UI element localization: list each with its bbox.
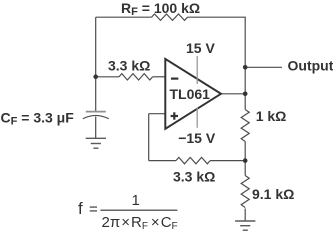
- wire: non-inverting input: [149, 113, 166, 115]
- wire: rail above 1k: [244, 94, 246, 110]
- wire: op-amp output: [221, 93, 245, 95]
- svg-text:2π×RF×CF: 2π×RF×CF: [102, 214, 178, 232]
- wire: left rail top to RF: [96, 16, 152, 18]
- supply +15V line: [196, 56, 198, 84]
- resistor 9.1k vertical zigzag: [241, 176, 249, 208]
- svg-text:15 V: 15 V: [186, 40, 215, 56]
- wire: left rail down to inverting node: [95, 17, 97, 77]
- svg-text:RF = 100 kΩ: RF = 100 kΩ: [121, 0, 200, 18]
- node: feedback junction: [243, 158, 248, 163]
- wire: inverting node to 3.3k: [96, 76, 119, 78]
- capacitor CF top plate: [86, 111, 106, 113]
- svg-text:−15 V: −15 V: [178, 130, 216, 146]
- ground (right): [235, 221, 255, 230]
- wire: 1k to feedback node: [244, 142, 246, 161]
- svg-text:f: f: [78, 199, 83, 218]
- wire: right rail from top corner to output node: [244, 17, 246, 68]
- svg-text:CF = 3.3 μF: CF = 3.3 μF: [1, 109, 75, 127]
- wire: capacitor to left ground: [95, 117, 97, 139]
- wire: right rail output node to opamp output node: [244, 67, 246, 94]
- op-amp plus input symbol: [171, 112, 178, 119]
- svg-text:1 kΩ: 1 kΩ: [256, 108, 287, 124]
- svg-text:9.1 kΩ: 9.1 kΩ: [252, 186, 294, 202]
- svg-text:3.3 kΩ: 3.3 kΩ: [108, 57, 150, 73]
- node: op-amp output junction: [243, 92, 248, 97]
- wire: plus-loop vertical: [148, 114, 150, 161]
- wire: 3.3k to op-amp inverting input: [153, 76, 166, 78]
- formula f = 1/(2pi x RF x CF): [78, 192, 178, 232]
- svg-text:=: =: [89, 201, 98, 218]
- wire: bottom to 3.3k feedback: [149, 160, 176, 162]
- op-amp U1 TL061 triangle: [165, 59, 221, 129]
- supply -15V line: [196, 108, 198, 128]
- svg-text:Output: Output: [288, 58, 333, 74]
- capacitor CF curved plate: [83, 115, 109, 118]
- wire: 9.1k to ground: [244, 209, 246, 221]
- wire: 3.3k feedback to right rail node: [210, 160, 245, 162]
- svg-text:1: 1: [132, 192, 140, 209]
- resistor 3.3k feedback zigzag: [176, 157, 210, 163]
- ground (left): [86, 138, 106, 148]
- node: inverting junction: [93, 75, 98, 80]
- svg-text:3.3 kΩ: 3.3 kΩ: [173, 169, 215, 185]
- wire: inverting node to capacitor: [95, 77, 97, 111]
- node: output tap junction: [243, 65, 248, 70]
- svg-text:TL061: TL061: [170, 86, 211, 102]
- wire: output node to Output label: [245, 66, 282, 68]
- wire: RF to right rail corner: [188, 16, 246, 18]
- op-amp minus input symbol: [171, 77, 178, 79]
- resistor 3.3k inverting input zigzag: [119, 74, 153, 80]
- wire: feedback node to 9.1k: [244, 161, 246, 176]
- resistor R 1k vertical zigzag: [241, 110, 249, 142]
- resistor RF 100k zigzag: [152, 14, 188, 20]
